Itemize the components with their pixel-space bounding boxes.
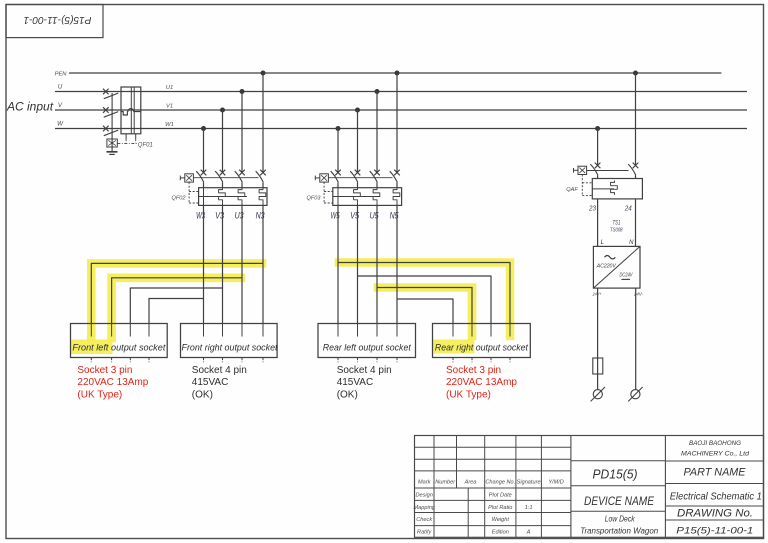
svg-text:DRAWING No.: DRAWING No. bbox=[677, 507, 753, 519]
svg-text:23: 23 bbox=[588, 204, 597, 213]
svg-text:U: U bbox=[58, 84, 63, 91]
svg-text:Front left output socket: Front left output socket bbox=[72, 343, 165, 353]
svg-text:Area: Area bbox=[464, 479, 477, 485]
svg-text:Transportation Wagon: Transportation Wagon bbox=[580, 527, 659, 536]
svg-text:A: A bbox=[526, 530, 531, 536]
svg-text:Mapping: Mapping bbox=[413, 505, 435, 511]
svg-text:U1: U1 bbox=[166, 85, 173, 91]
svg-text:(UK Type): (UK Type) bbox=[446, 390, 491, 401]
svg-text:Low Deck: Low Deck bbox=[605, 514, 636, 523]
svg-text:U5: U5 bbox=[370, 210, 380, 220]
svg-text:TS008: TS008 bbox=[610, 228, 623, 234]
svg-text:(OK): (OK) bbox=[192, 390, 213, 401]
svg-text:24V+: 24V+ bbox=[592, 291, 602, 297]
svg-text:220VAC 13Amp: 220VAC 13Amp bbox=[446, 377, 517, 388]
svg-text:24: 24 bbox=[624, 204, 632, 213]
svg-text:Check: Check bbox=[416, 517, 433, 523]
svg-text:Front right output socket: Front right output socket bbox=[182, 343, 278, 353]
svg-text:Ratify: Ratify bbox=[417, 530, 433, 536]
svg-text:P15(5)-11-00-1: P15(5)-11-00-1 bbox=[676, 526, 753, 536]
svg-text:V5: V5 bbox=[350, 210, 360, 220]
svg-text:415VAC: 415VAC bbox=[192, 377, 229, 388]
svg-text:AC220V: AC220V bbox=[596, 263, 617, 269]
svg-text:N: N bbox=[629, 240, 634, 246]
svg-text:1:1: 1:1 bbox=[525, 505, 533, 511]
svg-text:415VAC: 415VAC bbox=[337, 377, 374, 388]
svg-text:Rear right output socket: Rear right output socket bbox=[435, 343, 528, 353]
svg-text:Rear left output socket: Rear left output socket bbox=[323, 343, 411, 353]
svg-text:AC input: AC input bbox=[6, 100, 54, 114]
svg-text:Y/M/D: Y/M/D bbox=[548, 479, 564, 485]
svg-text:Socket 3 pin: Socket 3 pin bbox=[446, 365, 501, 376]
svg-text:TS1: TS1 bbox=[613, 220, 621, 227]
svg-text:Design: Design bbox=[415, 493, 432, 499]
svg-text:Change No.: Change No. bbox=[485, 479, 515, 485]
svg-text:QF01: QF01 bbox=[138, 143, 153, 149]
svg-text:Edition: Edition bbox=[492, 530, 509, 536]
svg-text:(OK): (OK) bbox=[337, 390, 358, 401]
svg-text:P15(5)-11-00-1: P15(5)-11-00-1 bbox=[24, 14, 92, 26]
svg-text:L: L bbox=[601, 240, 604, 246]
svg-text:QF03: QF03 bbox=[307, 196, 322, 202]
svg-text:N5: N5 bbox=[390, 210, 400, 220]
svg-text:BAOJI BAOHONG: BAOJI BAOHONG bbox=[689, 440, 741, 447]
svg-text:Plot Date: Plot Date bbox=[489, 493, 512, 499]
svg-text:QAF: QAF bbox=[566, 187, 578, 193]
svg-text:PEN: PEN bbox=[55, 71, 68, 77]
svg-text:24V-: 24V- bbox=[633, 291, 643, 297]
svg-text:Socket 4 pin: Socket 4 pin bbox=[337, 365, 392, 376]
svg-text:Socket 4 pin: Socket 4 pin bbox=[192, 365, 247, 376]
svg-text:W1: W1 bbox=[165, 122, 174, 128]
svg-text:(UK Type): (UK Type) bbox=[77, 390, 122, 401]
svg-text:Mark: Mark bbox=[418, 479, 432, 485]
svg-text:QF02: QF02 bbox=[172, 196, 187, 202]
svg-text:DEVICE NAME: DEVICE NAME bbox=[584, 494, 655, 508]
svg-text:DC24V: DC24V bbox=[620, 272, 634, 278]
svg-text:Number: Number bbox=[435, 479, 456, 485]
svg-text:PART NAME: PART NAME bbox=[684, 467, 746, 479]
svg-text:MACHINERY Co., Ltd: MACHINERY Co., Ltd bbox=[681, 451, 749, 458]
svg-text:Plot Ratio: Plot Ratio bbox=[488, 505, 512, 511]
svg-text:220VAC 13Amp: 220VAC 13Amp bbox=[77, 377, 148, 388]
svg-text:PD15(5): PD15(5) bbox=[593, 466, 638, 481]
svg-text:Electrical Schematic 1: Electrical Schematic 1 bbox=[670, 492, 762, 503]
svg-text:Weight: Weight bbox=[492, 517, 510, 523]
svg-text:W5: W5 bbox=[331, 210, 341, 220]
svg-text:Socket 3 pin: Socket 3 pin bbox=[77, 365, 132, 376]
svg-text:Signature: Signature bbox=[517, 479, 541, 485]
svg-text:V1: V1 bbox=[166, 104, 173, 110]
